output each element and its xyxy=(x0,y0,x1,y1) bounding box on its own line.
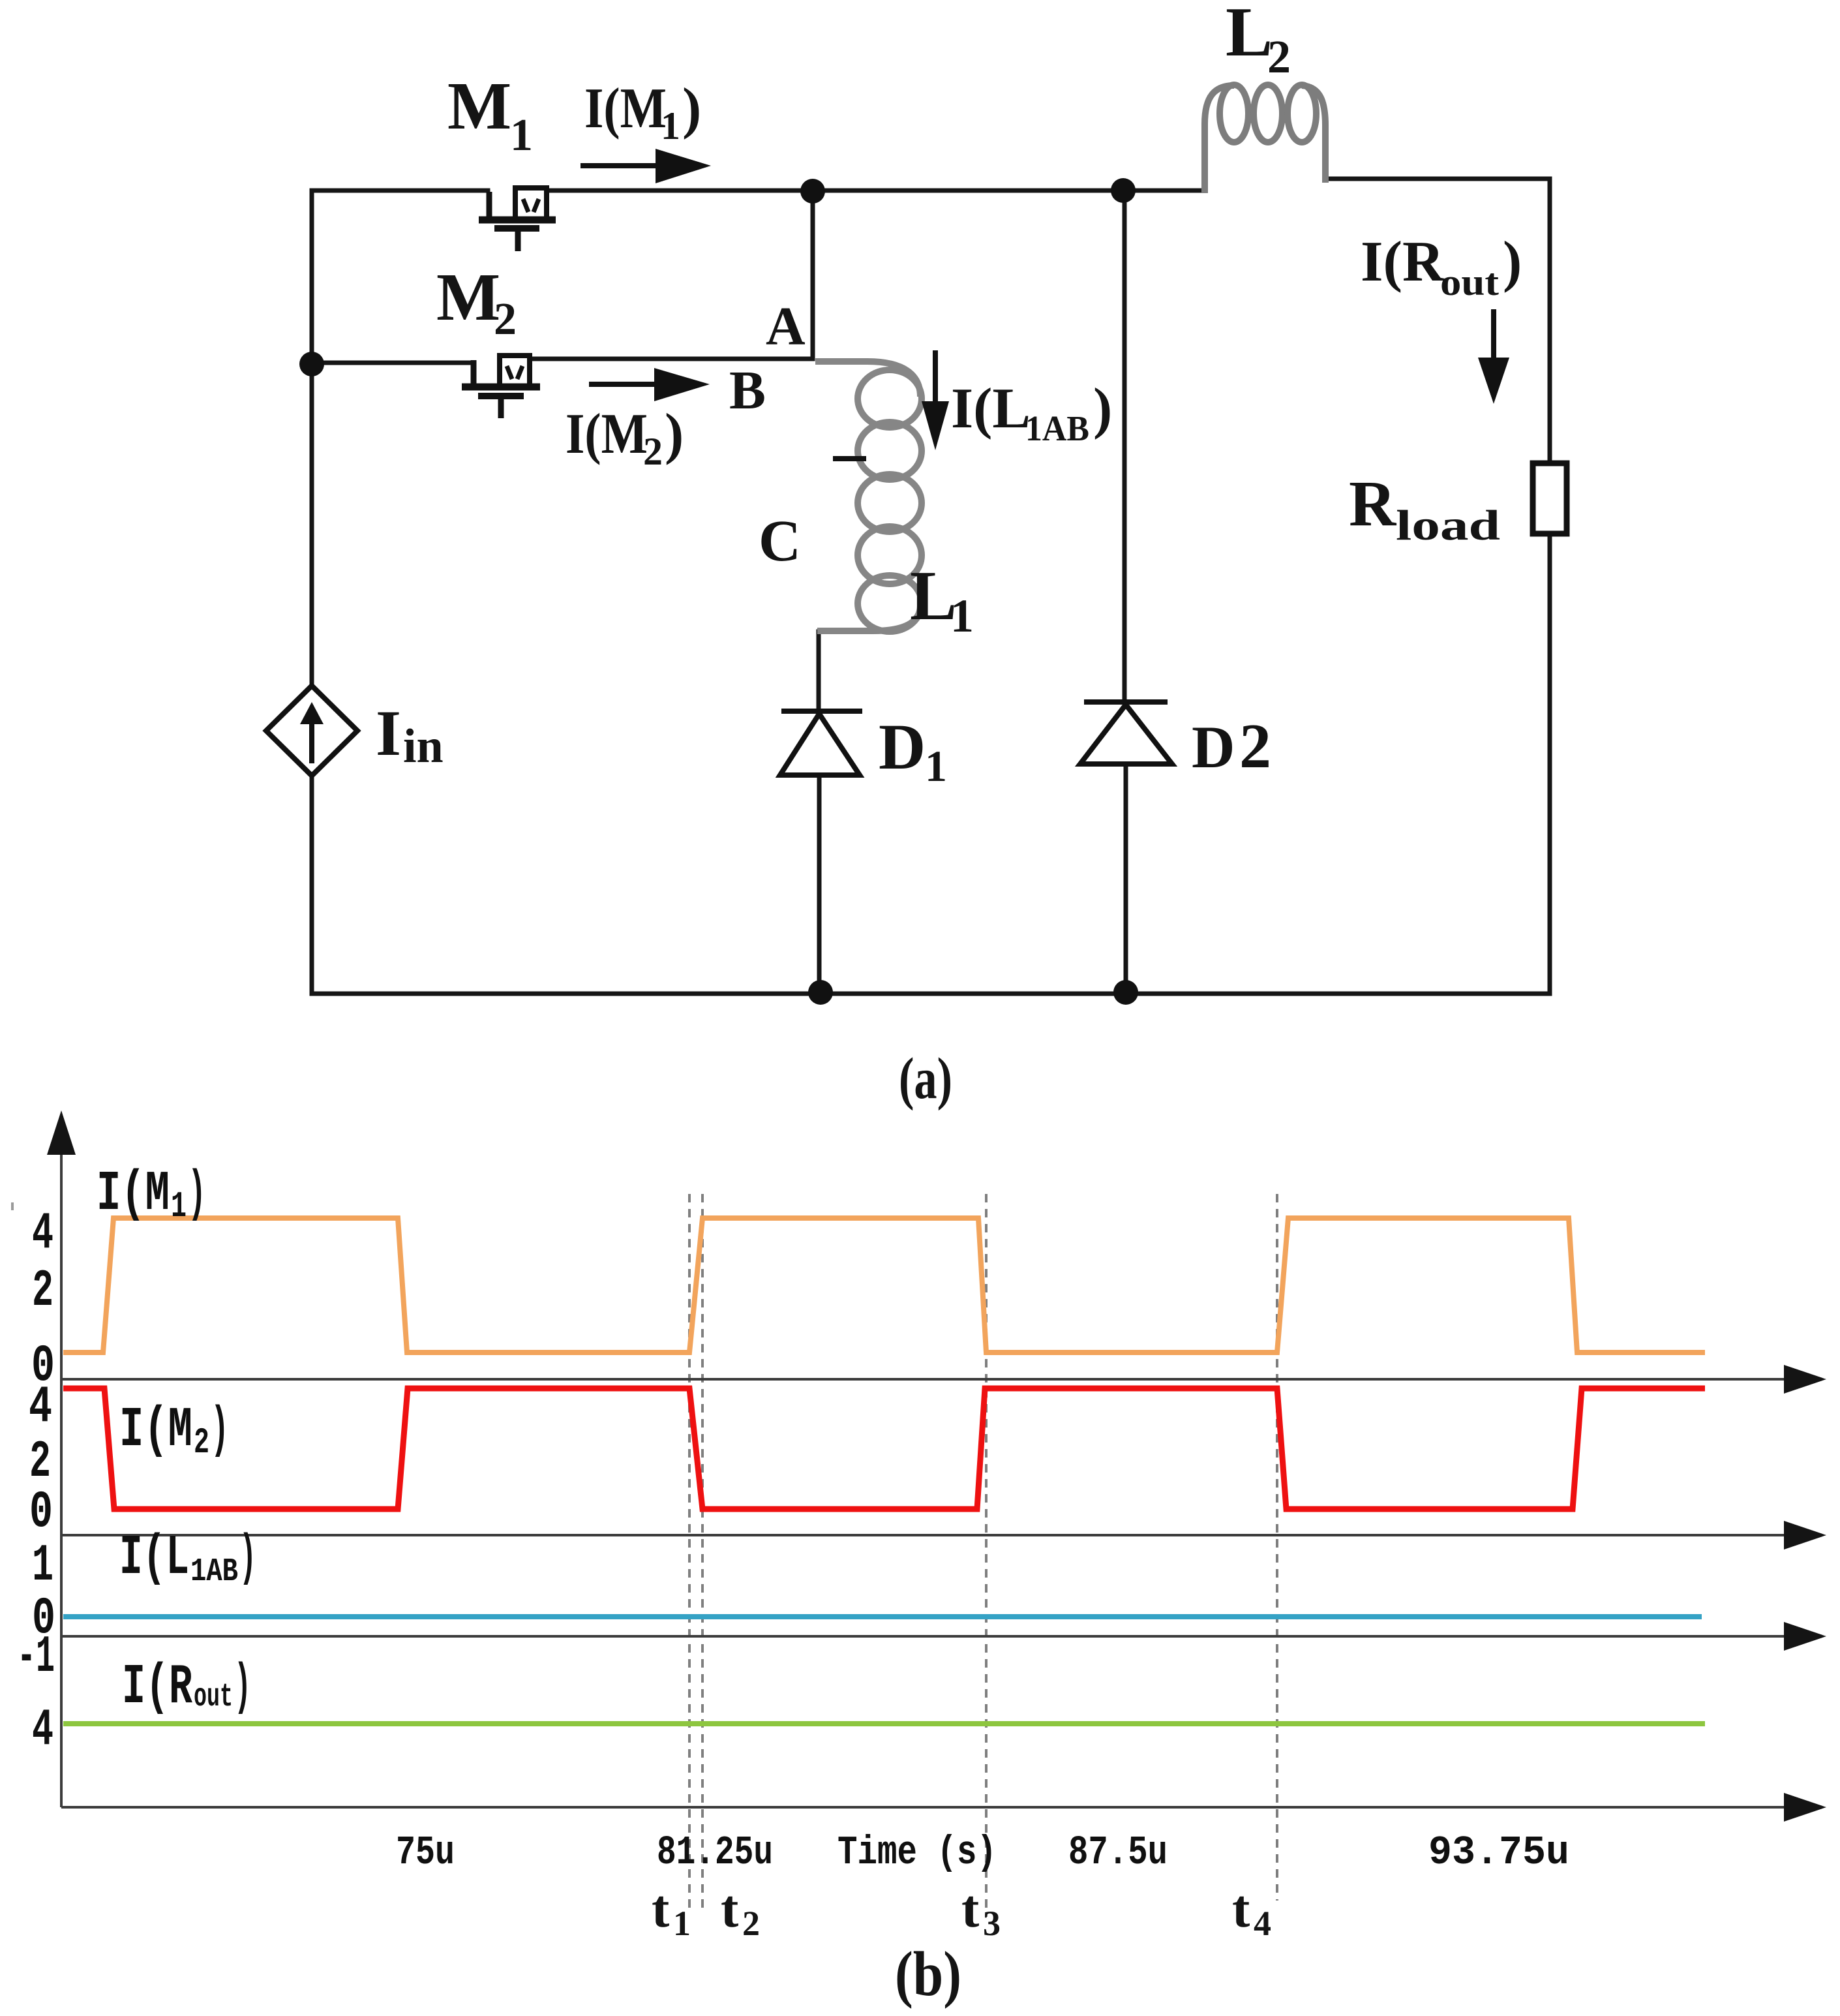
svg-text:93.75u: 93.75u xyxy=(1428,1829,1569,1876)
svg-text:1: 1 xyxy=(950,590,974,642)
curve I(Rout) green xyxy=(63,1721,1705,1726)
svg-text:I(M: I(M xyxy=(119,1398,192,1462)
wire top rail right (node to L2) xyxy=(813,189,1205,193)
resistor Rload xyxy=(1533,463,1567,534)
label I(M1) trace xyxy=(97,1162,206,1227)
current arrow I(Rout) xyxy=(1478,309,1509,404)
wire right vertical below Rload xyxy=(1548,534,1552,994)
dashed line t1 xyxy=(688,1194,691,1910)
svg-text:I(L: I(L xyxy=(951,377,1031,440)
wire left vertical (Iin branch bottom) xyxy=(310,774,314,994)
wire right vertical above Rload xyxy=(1548,179,1552,463)
curve I(L1AB) cyan xyxy=(63,1614,1702,1619)
curve I(M2) red xyxy=(63,1388,1705,1509)
svg-text:75u: 75u xyxy=(396,1829,455,1876)
wire D2 vertical top xyxy=(1123,190,1127,702)
node junction dot (top wire / D2 branch) xyxy=(1111,178,1136,203)
dashed line t3 xyxy=(985,1194,988,1917)
svg-text:(b): (b) xyxy=(895,1939,961,2009)
svg-text:M: M xyxy=(436,260,500,335)
svg-text:M: M xyxy=(447,69,511,144)
svg-text:1: 1 xyxy=(673,1904,691,1943)
svg-text:): ) xyxy=(682,77,701,140)
inductor L2 xyxy=(1205,85,1325,193)
label I(M2) trace xyxy=(119,1398,229,1463)
svg-text:2: 2 xyxy=(194,1422,209,1463)
wire bottom rail xyxy=(312,992,1550,996)
dashed line t2 xyxy=(701,1194,704,1910)
svg-text:C: C xyxy=(759,509,801,573)
svg-text:): ) xyxy=(211,1398,229,1462)
svg-text:t: t xyxy=(1232,1879,1250,1938)
axis tick mark top-left xyxy=(11,1202,14,1210)
svg-text:0: 0 xyxy=(29,1483,53,1542)
wire M2 row left xyxy=(312,361,474,365)
svg-text:81.25u: 81.25u xyxy=(657,1829,773,1876)
svg-text:): ) xyxy=(239,1526,256,1590)
x-axis panel 1 xyxy=(61,1378,1790,1381)
transistor M2 xyxy=(462,356,540,418)
svg-text:2: 2 xyxy=(494,294,517,344)
svg-text:1: 1 xyxy=(925,741,947,791)
svg-text:2: 2 xyxy=(1267,31,1291,83)
svg-text:4: 4 xyxy=(32,1204,53,1264)
svg-text:(a): (a) xyxy=(899,1046,952,1111)
svg-text:3: 3 xyxy=(983,1904,1001,1943)
svg-text:I(R: I(R xyxy=(1361,230,1445,294)
x-axis panel 2 xyxy=(61,1534,1790,1536)
svg-text:-1: -1 xyxy=(17,1628,55,1687)
current arrow I(M2) xyxy=(589,368,710,401)
svg-text:t: t xyxy=(652,1879,669,1938)
svg-text:D: D xyxy=(1192,714,1235,780)
svg-text:out: out xyxy=(194,1679,233,1716)
wire left vertical (Iin branch top) xyxy=(310,191,314,687)
svg-text:1: 1 xyxy=(661,104,680,147)
svg-text:R: R xyxy=(1349,467,1397,540)
svg-text:t: t xyxy=(961,1879,979,1938)
diode D1 xyxy=(780,711,862,775)
node junction dot (bottom rail / D2) xyxy=(1113,980,1138,1005)
label I(L1AB) trace xyxy=(119,1526,256,1591)
wire top rail left (to M1) xyxy=(312,189,488,193)
wire top rail middle (M1 to node) xyxy=(547,189,813,193)
svg-text:4: 4 xyxy=(32,1701,53,1760)
svg-text:I(L: I(L xyxy=(119,1526,189,1590)
svg-text:out: out xyxy=(1440,261,1500,303)
svg-text:I(M: I(M xyxy=(566,403,648,466)
current arrow I(M1) xyxy=(581,149,711,183)
svg-text:4: 4 xyxy=(29,1378,52,1437)
dashed line t4 xyxy=(1276,1194,1278,1901)
wire D1 vertical bottom xyxy=(817,775,822,994)
svg-text:D: D xyxy=(879,710,926,783)
svg-text:1: 1 xyxy=(171,1185,187,1227)
svg-text:L: L xyxy=(1226,0,1273,71)
label I(Rout) trace xyxy=(122,1655,251,1719)
svg-text:I(M: I(M xyxy=(584,77,667,140)
node junction dot (bottom rail / D1) xyxy=(808,980,833,1005)
svg-text:2: 2 xyxy=(1239,711,1271,782)
svg-text:Time (s): Time (s) xyxy=(837,1829,997,1876)
svg-text:t: t xyxy=(721,1879,738,1938)
curve I(M1) orange xyxy=(63,1218,1705,1352)
svg-text:): ) xyxy=(188,1162,206,1226)
transistor M1 xyxy=(479,188,556,251)
svg-text:I(R: I(R xyxy=(122,1655,192,1719)
wire D2 vertical bottom xyxy=(1124,764,1128,994)
wire from L2 to right corner xyxy=(1325,177,1550,181)
svg-text:2: 2 xyxy=(32,1262,53,1321)
svg-text:1: 1 xyxy=(32,1536,53,1596)
svg-text:1: 1 xyxy=(510,110,533,160)
svg-text:87.5u: 87.5u xyxy=(1068,1829,1168,1876)
node junction dot (top wire / A branch) xyxy=(800,179,825,204)
svg-text:): ) xyxy=(1093,377,1112,440)
svg-text:B: B xyxy=(729,360,766,421)
svg-text:load: load xyxy=(1396,502,1500,549)
svg-text:A: A xyxy=(766,296,806,357)
svg-text:2: 2 xyxy=(742,1904,760,1943)
current source Iin xyxy=(266,686,357,776)
wire D1 vertical top xyxy=(817,632,821,711)
svg-text:1AB: 1AB xyxy=(190,1553,238,1591)
node junction dot (left / M2 tee) xyxy=(299,352,324,376)
x-axis panel 3 xyxy=(61,1635,1790,1638)
svg-text:): ) xyxy=(1503,230,1522,294)
svg-text:1AB: 1AB xyxy=(1025,408,1089,448)
L1 center tap xyxy=(833,456,866,461)
svg-text:I: I xyxy=(376,697,401,769)
svg-text:4: 4 xyxy=(1254,1904,1271,1943)
svg-text:in: in xyxy=(403,720,444,773)
y-axis xyxy=(60,1135,63,1807)
inductor L1 (tapped coil) xyxy=(815,361,922,632)
wire node to A vertical xyxy=(811,191,815,359)
svg-text:): ) xyxy=(234,1655,251,1719)
svg-text:I(M: I(M xyxy=(97,1162,170,1226)
svg-text:): ) xyxy=(665,403,684,466)
x-axis panel 4 (time axis) xyxy=(61,1806,1790,1809)
wire M2 row right (to node A) xyxy=(530,357,813,361)
svg-text:2: 2 xyxy=(643,430,663,473)
current arrow I(L1AB) xyxy=(922,350,949,450)
diode D2 xyxy=(1080,702,1172,764)
